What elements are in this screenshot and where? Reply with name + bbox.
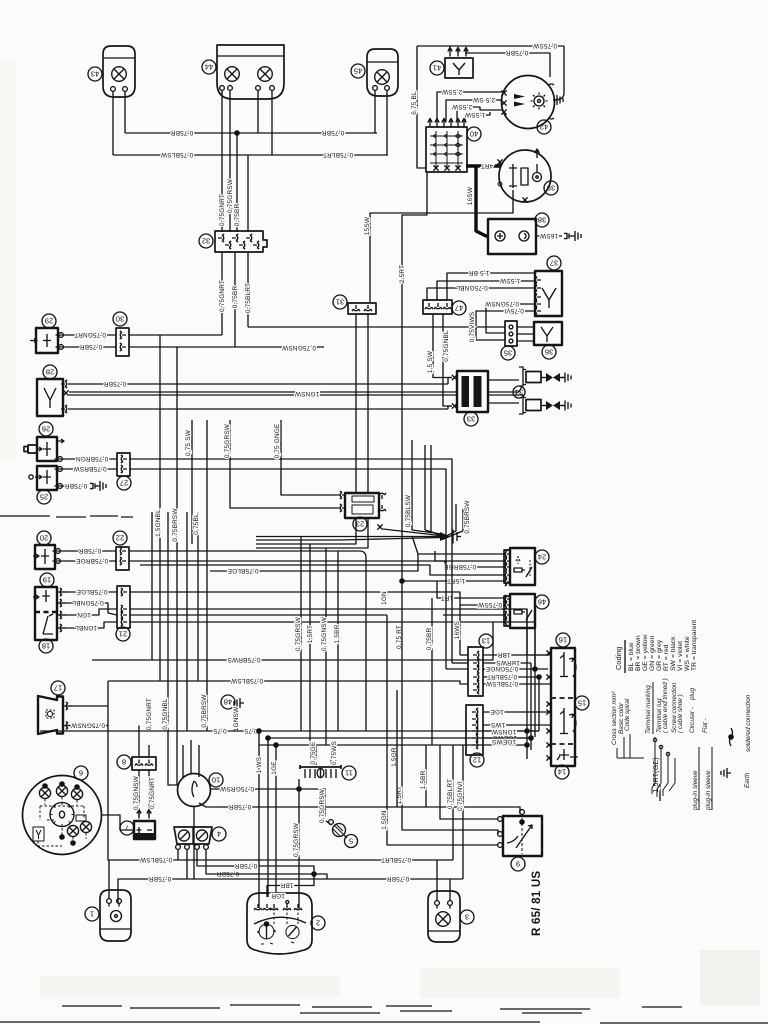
svg-text:0,75BR: 0,75BR xyxy=(80,343,103,350)
svg-text:11: 11 xyxy=(345,768,353,777)
wires right of connector 27 xyxy=(130,459,452,530)
wire flasher lower xyxy=(68,406,452,409)
wire horn upper to harness xyxy=(63,702,108,710)
handlebar switch 19 xyxy=(33,573,57,640)
svg-text:0,75GRSW: 0,75GRSW xyxy=(293,822,300,857)
svg-text:VI = violet: VI = violet xyxy=(677,641,684,671)
svg-text:Circular -: Circular - xyxy=(689,707,696,733)
wire 075BLGE 19-21 xyxy=(57,588,117,596)
connector 47 xyxy=(423,300,466,315)
wire lamp45 drops xyxy=(375,93,387,155)
svg-text:0,75WS: 0,75WS xyxy=(331,741,338,765)
wire 075BR flasher feed xyxy=(68,378,452,387)
svg-text:1GNSW: 1GNSW xyxy=(294,390,319,397)
battery cable 4RT thick xyxy=(466,162,500,169)
regulator 7 xyxy=(120,810,155,840)
svg-text:26: 26 xyxy=(42,424,50,433)
svg-text:0,75BL: 0,75BL xyxy=(193,513,200,535)
legend terminal marking xyxy=(645,678,709,734)
wire 1WS xyxy=(483,721,548,728)
svg-text:0,75GNBL: 0,75GNBL xyxy=(443,330,450,362)
wires into 13 from above xyxy=(426,524,468,745)
handlebar switch unit 16/15/14 xyxy=(551,633,589,779)
wire 075BR 29-30 xyxy=(56,343,117,350)
wire 1RT to relay 46 xyxy=(437,581,505,601)
wire 075GRSW speedo to junction xyxy=(211,785,300,792)
light switch 9 xyxy=(498,810,542,871)
svg-text:1,5RT(GE): 1,5RT(GE) xyxy=(653,757,660,793)
svg-text:6,75 BL: 6,75 BL xyxy=(411,91,418,115)
svg-text:15: 15 xyxy=(578,698,586,707)
wire 075BLRT harness to 35 xyxy=(248,326,505,328)
svg-text:1WS: 1WS xyxy=(491,721,505,728)
svg-text:0,75: 0,75 xyxy=(244,727,257,734)
wire 075BRWS long xyxy=(92,622,493,663)
connector 32 xyxy=(199,231,267,252)
turn signal lamp 45 xyxy=(351,49,398,96)
svg-text:6: 6 xyxy=(79,768,83,777)
svg-text:30: 30 xyxy=(116,314,124,323)
svg-text:Code spiral: Code spiral xyxy=(624,698,631,731)
svg-text:0,75GRSW: 0,75GRSW xyxy=(295,616,302,651)
svg-text:0,75BLRT: 0,75BLRT xyxy=(487,673,517,680)
svg-text:0,75 GNGE: 0,75 GNGE xyxy=(274,424,281,459)
wire 075VI loop 37-35 xyxy=(469,307,535,342)
svg-text:45: 45 xyxy=(354,66,362,75)
wire 1,5RT vertical to switch 9 xyxy=(396,581,498,834)
svg-text:1GN: 1GN xyxy=(77,611,91,618)
wire 075SW top right xyxy=(417,42,564,49)
svg-text:41: 41 xyxy=(433,63,441,72)
wire to relay 46 pin3 xyxy=(443,614,505,616)
wire 075GNSW horn harness xyxy=(138,726,140,758)
svg-text:0,75GNRT: 0,75GNRT xyxy=(219,194,226,226)
connector 30 xyxy=(113,312,129,356)
svg-text:0,75GNVI: 0,75GNVI xyxy=(457,781,464,811)
connector 12 xyxy=(466,705,484,767)
switch 29 xyxy=(30,314,58,353)
wires indicator block to harness xyxy=(178,852,314,879)
brake light switch 5 xyxy=(329,820,358,848)
svg-text:SW = black: SW = black xyxy=(670,636,677,671)
wire 2,5RT long vertical xyxy=(396,172,427,649)
wire 075BLRT tail xyxy=(447,745,454,860)
svg-text:29: 29 xyxy=(45,316,53,325)
svg-text:17: 17 xyxy=(54,683,62,692)
wire 075 links bottom xyxy=(40,727,539,734)
svg-text:47: 47 xyxy=(455,303,463,312)
svg-text:0,75BRGN: 0,75BRGN xyxy=(76,455,109,462)
wire 1GEWS bottom xyxy=(268,734,531,741)
svg-text:4RT: 4RT xyxy=(481,162,494,169)
svg-text:Terminal marking: Terminal marking xyxy=(645,685,652,734)
svg-text:25: 25 xyxy=(40,492,48,501)
svg-text:0,75BR: 0,75BR xyxy=(217,870,240,877)
svg-text:13: 13 xyxy=(482,636,490,645)
wire 1BRWS xyxy=(483,659,531,666)
svg-text:1GN: 1GN xyxy=(381,591,388,605)
wires 25SW to switch 42 xyxy=(437,88,502,121)
svg-text:1GNBL: 1GNBL xyxy=(75,624,97,631)
wire 075BR to starter relay xyxy=(465,49,550,77)
front lamp 1 xyxy=(85,860,131,941)
svg-text:Cross section mm²: Cross section mm² xyxy=(611,691,618,745)
svg-text:1GNSW: 1GNSW xyxy=(491,728,516,735)
svg-text:0,75GRSW: 0,75GRSW xyxy=(219,785,254,792)
svg-text:37: 37 xyxy=(550,258,558,267)
wire flasher double pair xyxy=(69,386,522,397)
wire 1,5BR to switch 9 xyxy=(391,745,427,807)
svg-text:40: 40 xyxy=(470,129,478,138)
wire ignition feeds 31 to 23 xyxy=(356,314,368,493)
svg-text:22: 22 xyxy=(116,533,124,542)
svg-text:2,5RT: 2,5RT xyxy=(399,265,406,283)
svg-text:Flat -: Flat - xyxy=(702,718,709,733)
svg-text:0,75BLSW: 0,75BLSW xyxy=(160,151,193,158)
wire 075GNBL 19-21 xyxy=(57,599,117,615)
svg-text:33: 33 xyxy=(467,414,475,423)
wire 075BLSW long parking xyxy=(108,681,453,863)
svg-text:1BR: 1BR xyxy=(280,881,293,888)
wire lamp43 drops xyxy=(113,94,125,155)
svg-text:20: 20 xyxy=(40,533,48,542)
svg-text:WS = white: WS = white xyxy=(684,636,691,671)
ignition switch unit 42 xyxy=(501,76,554,135)
connector 27 xyxy=(117,453,131,490)
flasher relay 28 xyxy=(37,365,69,416)
wire 0758R tail lamp run xyxy=(118,870,463,903)
svg-text:42: 42 xyxy=(540,122,548,131)
svg-text:GE = yellow: GE = yellow xyxy=(642,634,649,671)
wire 075GNSW loop 37-35 xyxy=(484,300,535,333)
svg-text:0,75GRSW: 0,75GRSW xyxy=(224,423,231,458)
ignition switch 23 xyxy=(340,491,386,531)
earth point 48 xyxy=(221,695,244,731)
svg-text:0,75BRSW: 0,75BRSW xyxy=(464,500,471,534)
title R 65/81 US xyxy=(530,871,543,936)
starter relay / coil 39 xyxy=(497,149,558,203)
battery cable 16SW thick xyxy=(467,166,488,236)
connector 21 xyxy=(116,586,130,641)
legend earth symbol xyxy=(721,768,751,788)
svg-text:1 WS: 1 WS xyxy=(256,757,263,773)
svg-text:plug: plug xyxy=(689,687,696,701)
svg-text:0,75VIWS: 0,75VIWS xyxy=(469,312,476,342)
wire 075GNGE xyxy=(483,665,535,672)
svg-text:0,75GNSW: 0,75GNSW xyxy=(281,344,316,351)
alternator assembly 6 xyxy=(23,766,102,855)
instrument cluster 2 xyxy=(247,892,325,954)
svg-text:1GEWS: 1GEWS xyxy=(492,738,516,745)
svg-text:RT = red: RT = red xyxy=(663,644,670,671)
svg-text:15SW: 15SW xyxy=(364,216,371,235)
connector 8 xyxy=(117,745,156,770)
battery earth lead 16SW xyxy=(536,231,581,241)
svg-text:3: 3 xyxy=(465,912,469,921)
connector 13 xyxy=(468,634,493,696)
wire 075BLRT xyxy=(483,673,539,680)
svg-text:5: 5 xyxy=(349,837,353,846)
svg-text:23: 23 xyxy=(356,519,364,528)
svg-text:0,75BR: 0,75BR xyxy=(149,875,172,882)
svg-text:16WS: 16WS xyxy=(454,621,461,639)
svg-text:1GE: 1GE xyxy=(271,761,278,774)
svg-text:1,5BR: 1,5BR xyxy=(420,770,427,789)
svg-text:0,75GNRT: 0,75GNRT xyxy=(149,777,156,809)
svg-text:44: 44 xyxy=(205,62,213,71)
svg-text:7: 7 xyxy=(125,823,129,832)
bus verticals at switch assembly xyxy=(454,609,551,761)
battery 38 xyxy=(488,213,549,254)
earth spark fan xyxy=(256,440,471,544)
wire 0758R speedometer to switch 9 xyxy=(199,803,520,813)
control unit 37 xyxy=(535,256,562,316)
wire 075GNSW horn lower xyxy=(63,721,108,729)
junction dots bottom bundle xyxy=(256,728,279,748)
svg-text:0,75BR: 0,75BR xyxy=(171,129,194,136)
svg-text:0,75GNSW: 0,75GNSW xyxy=(484,300,519,307)
wires right of connector 21 xyxy=(130,592,535,669)
wire 075SW to relay 46 xyxy=(460,601,505,608)
wire 075BLSW / 075BLRT top harness xyxy=(113,151,388,158)
svg-text:21: 21 xyxy=(119,629,127,638)
svg-text:1,5GNBL: 1,5GNBL xyxy=(155,509,162,537)
horn relay 46 xyxy=(504,594,549,628)
svg-text:28: 28 xyxy=(46,367,54,376)
svg-text:0,75BLGE: 0,75BLGE xyxy=(76,588,107,595)
svg-text:0,75GNBL: 0,75GNBL xyxy=(72,599,104,606)
svg-text:9: 9 xyxy=(516,859,520,868)
svg-text:plug-in sleeve: plug-in sleeve xyxy=(705,770,712,811)
svg-text:0,75GNRT: 0,75GNRT xyxy=(74,331,106,338)
wire 15SW 47 to flasher 33 xyxy=(427,314,452,378)
svg-text:2,5SW: 2,5SW xyxy=(451,103,472,110)
wire 075BLGE long xyxy=(210,554,418,574)
svg-text:1GE: 1GE xyxy=(490,708,503,715)
mid harness verticals xyxy=(295,537,341,746)
svg-text:TR = transparent: TR = transparent xyxy=(691,620,698,671)
svg-text:0,75BLSW: 0,75BLSW xyxy=(230,677,263,684)
svg-text:0,75BR: 0,75BR xyxy=(232,286,239,309)
wire to relay 24 pins xyxy=(140,536,505,575)
svg-text:0,75BR: 0,75BR xyxy=(104,380,127,387)
wire connector30 to harness xyxy=(129,335,324,351)
svg-text:1,5BR: 1,5BR xyxy=(334,624,341,643)
svg-text:Coding: Coding xyxy=(614,647,623,670)
svg-text:46: 46 xyxy=(538,597,546,606)
wire 075BR earth lead 25 xyxy=(55,481,107,491)
wire 0758R 20-22 xyxy=(53,547,117,554)
svg-text:18: 18 xyxy=(42,641,50,650)
svg-text:0,75GNSW: 0,75GNSW xyxy=(321,616,328,651)
wire 075GNBL 47 to flasher 33 xyxy=(443,314,452,406)
svg-text:19: 19 xyxy=(43,575,51,584)
wire 075BR top harness xyxy=(125,129,377,136)
svg-text:plug-in sleeve: plug-in sleeve xyxy=(692,770,699,811)
svg-text:0,75BR: 0,75BR xyxy=(229,803,252,810)
svg-text:0,75GNSW: 0,75GNSW xyxy=(133,775,140,810)
svg-text:0,75GRSW: 0,75GRSW xyxy=(319,788,326,823)
svg-text:8: 8 xyxy=(122,757,126,766)
legend soldered connection xyxy=(728,694,752,752)
wire 675BL long vertical xyxy=(411,46,426,168)
svg-text:0,75: 0,75 xyxy=(213,727,226,734)
circled 18 xyxy=(39,639,53,653)
svg-text:0,75GE: 0,75GE xyxy=(310,742,317,765)
wire 1GEWS to bus xyxy=(483,738,531,745)
svg-text:0,75GRSW: 0,75GRSW xyxy=(227,178,234,213)
wire 1GNBL 19-21 xyxy=(57,622,117,632)
svg-text:1GNSW: 1GNSW xyxy=(233,706,240,731)
svg-text:16SW: 16SW xyxy=(467,186,474,205)
legend coding list xyxy=(628,620,698,671)
svg-text:0,75BRGE: 0,75BRGE xyxy=(444,563,476,570)
svg-text:( cable shoe ): ( cable shoe ) xyxy=(677,694,684,733)
legend sample wire xyxy=(652,737,712,811)
horn 17 xyxy=(38,681,65,734)
svg-text:27: 27 xyxy=(120,478,128,487)
junction 1,5RT xyxy=(399,577,505,584)
svg-text:0,75BLSW: 0,75BLSW xyxy=(485,680,518,687)
svg-text:0,75BRSW: 0,75BRSW xyxy=(201,694,208,728)
svg-text:0,75BLGE: 0,75BLGE xyxy=(227,567,258,574)
svg-text:1,5GN: 1,5GN xyxy=(381,810,388,830)
wire 1GE 12 to bus xyxy=(483,708,548,715)
wire 1,5GN vertical to switch 9 xyxy=(381,591,498,845)
svg-text:0,75BRSW: 0,75BRSW xyxy=(73,465,107,472)
flasher unit 33 xyxy=(452,371,488,426)
wire 1GN 19-21 xyxy=(57,609,117,619)
svg-text:0,75BLRT: 0,75BLRT xyxy=(323,151,353,158)
svg-text:0,75BR: 0,75BR xyxy=(426,628,433,651)
svg-text:16: 16 xyxy=(559,635,567,644)
svg-text:0,75BLRT: 0,75BLRT xyxy=(447,779,454,809)
wire 075BRGN 26-27 xyxy=(55,455,118,462)
junction top xyxy=(234,130,240,136)
svg-text:0,75GNRT: 0,75GNRT xyxy=(146,698,153,730)
svg-text:2,5 SW: 2,5 SW xyxy=(472,96,495,103)
svg-text:1,5SW: 1,5SW xyxy=(464,111,485,118)
svg-text:Earth: Earth xyxy=(744,772,751,788)
scan smudge bottom xyxy=(62,1005,682,1013)
wire 075BRGE to relay 24 xyxy=(129,561,505,570)
svg-text:0,75BRSW: 0,75BRSW xyxy=(172,508,179,542)
wire lamp44 drops to connector 32 xyxy=(219,93,272,232)
svg-text:0,75SW: 0,75SW xyxy=(532,42,557,49)
turn signal lamp 43 xyxy=(88,46,135,97)
svg-text:4: 4 xyxy=(217,829,221,838)
svg-text:0,75BLSW: 0,75BLSW xyxy=(405,494,412,527)
legend cross section xyxy=(611,691,644,758)
connector 31 xyxy=(333,295,376,314)
svg-text:1: 1 xyxy=(90,909,94,918)
starter relay 24 xyxy=(504,548,549,586)
wire bundle below 23 xyxy=(256,518,368,548)
wire 075GNVI tail xyxy=(457,745,464,879)
svg-text:48: 48 xyxy=(224,697,232,706)
wires 075GE 075WS fuse feeds xyxy=(310,741,338,765)
junction at fuse box xyxy=(293,779,331,908)
svg-text:0,75BR: 0,75BR xyxy=(322,129,345,136)
wire 1GE / 1WS bottom xyxy=(256,731,527,908)
scan bottom edge xyxy=(0,1022,768,1023)
svg-text:0,75BR: 0,75BR xyxy=(235,862,258,869)
svg-text:2: 2 xyxy=(316,918,320,927)
svg-text:0,75BRWS: 0,75BRWS xyxy=(227,656,260,663)
svg-text:0,75BLRT: 0,75BLRT xyxy=(245,283,252,313)
svg-text:1,5SW: 1,5SW xyxy=(499,277,520,284)
svg-text:2,5SW: 2,5SW xyxy=(441,88,462,95)
diode/regulator 41 xyxy=(430,46,473,78)
svg-text:R 65/ 81 US: R 65/ 81 US xyxy=(530,871,543,936)
svg-text:43: 43 xyxy=(91,69,99,78)
svg-text:( cable end tinned ): ( cable end tinned ) xyxy=(662,678,669,733)
connector 35 xyxy=(501,321,517,360)
svg-text:0,75BR: 0,75BR xyxy=(65,482,88,489)
indicator lamp block 4 xyxy=(174,827,226,853)
switch 20 xyxy=(33,531,55,569)
svg-text:0,75VI: 0,75VI xyxy=(504,307,524,314)
wire flasher 33 to horns xyxy=(488,380,519,403)
svg-text:1,5RT: 1,5RT xyxy=(307,625,314,643)
svg-text:BR = brown: BR = brown xyxy=(635,635,642,671)
svg-text:0,75BLSW: 0,75BLSW xyxy=(139,856,172,863)
junction tail harness xyxy=(267,871,327,897)
pilot lamp 26 xyxy=(24,422,64,461)
svg-text:0,75BLRT: 0,75BLRT xyxy=(381,856,411,863)
wire from relay 39 to battery xyxy=(364,190,513,302)
svg-text:0,75BR: 0,75BR xyxy=(506,49,529,56)
svg-text:GN = green: GN = green xyxy=(649,635,656,671)
ignition control 36 xyxy=(517,322,562,359)
speedometer 10 xyxy=(168,740,223,879)
wire 075BLSW xyxy=(483,680,548,687)
diode board 40 xyxy=(426,119,481,173)
svg-text:0,75BR: 0,75BR xyxy=(79,547,102,554)
svg-text:GR = grey: GR = grey xyxy=(656,639,663,671)
tail lamp 3 xyxy=(428,860,474,942)
horn pair 34 xyxy=(513,367,571,414)
wire 075BLSW long xyxy=(108,677,468,684)
svg-text:0,75GNBL: 0,75GNBL xyxy=(162,698,169,730)
wire 075BR to earth fan xyxy=(129,551,366,731)
wires below connector 32 xyxy=(219,252,252,347)
svg-text:0,75BR: 0,75BR xyxy=(387,875,410,882)
left harness verticals xyxy=(146,335,340,785)
svg-text:0,75GNRT: 0,75GNRT xyxy=(219,280,226,312)
svg-text:0,75SW: 0,75SW xyxy=(477,601,502,608)
wire 075GNBL to unit 37 xyxy=(427,284,535,301)
svg-text:1,5RT: 1,5RT xyxy=(447,577,465,584)
svg-text:32: 32 xyxy=(202,236,210,245)
svg-text:14: 14 xyxy=(558,767,566,776)
fuse box 11 xyxy=(300,765,356,780)
svg-text:0,75 SW: 0,75 SW xyxy=(185,429,192,456)
wires 075GNSW 075GNRT to regulator xyxy=(133,770,156,810)
wire feed light switch pin xyxy=(440,745,498,819)
svg-text:1BR: 1BR xyxy=(497,651,510,658)
svg-text:35: 35 xyxy=(504,348,512,357)
svg-text:1,5 BR: 1,5 BR xyxy=(468,269,489,276)
wire 1BR 13 to switch16 xyxy=(483,651,548,658)
wire 1GNSW xyxy=(483,728,539,735)
wire 075BRGE 20-22 xyxy=(53,557,117,564)
svg-text:16SW: 16SW xyxy=(539,232,558,239)
wire 075GNRT 29-30 xyxy=(56,331,117,338)
wire 15SW to unit 37 xyxy=(437,277,535,301)
svg-text:0,75BRGE: 0,75BRGE xyxy=(76,557,108,564)
svg-text:24: 24 xyxy=(538,552,546,561)
